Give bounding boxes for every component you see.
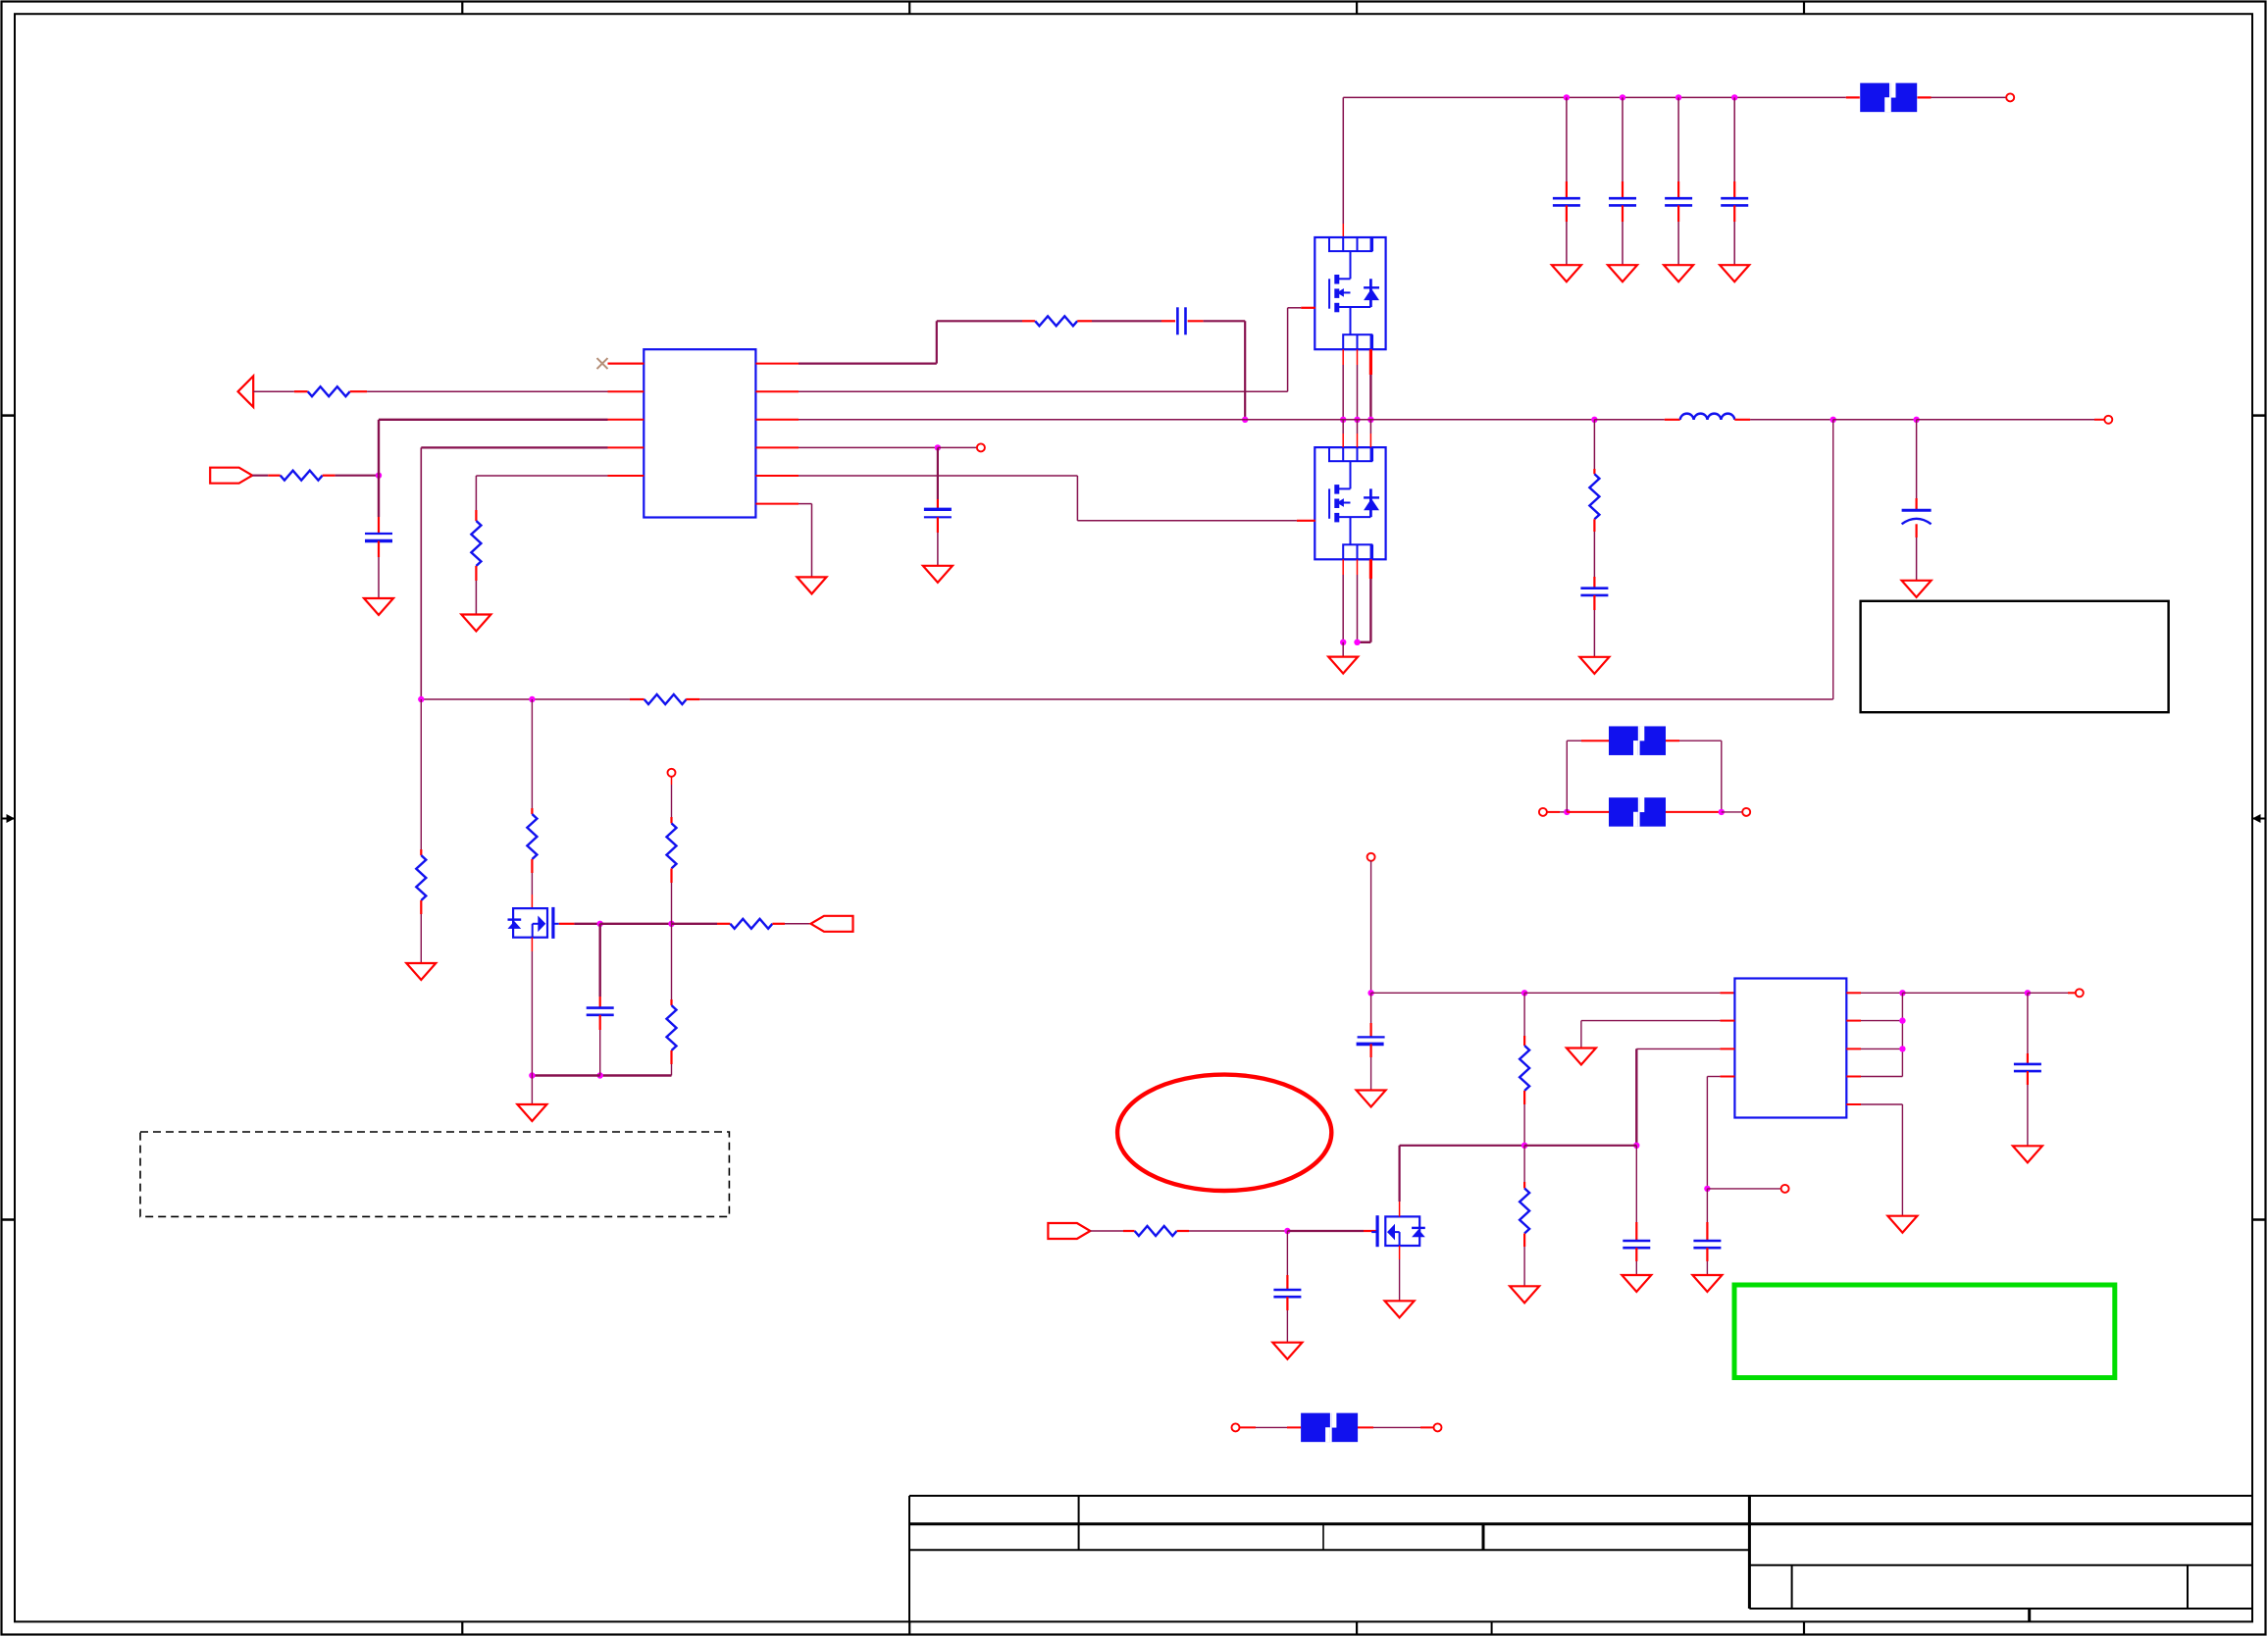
ground under C6	[923, 566, 953, 583]
wire bottom link left	[532, 1074, 599, 1076]
capacitor C15	[2014, 1053, 2041, 1085]
wire fuse right out	[1722, 811, 1743, 813]
capacitor C12	[1623, 1222, 1650, 1261]
border top tick 3	[1356, 2, 1358, 15]
junction R12 bottom	[1521, 1143, 1527, 1149]
wire C15 to ground	[2027, 1085, 2029, 1146]
wire VLDO to C15	[2027, 993, 2029, 1053]
capacitor C2	[1609, 181, 1636, 222]
wire SW to Q2 drain pin x1397.4	[1369, 420, 1371, 434]
wire VCC bus a	[1371, 992, 1525, 994]
U2 right pin1 stub	[1846, 992, 1861, 994]
wire C6 to ground	[937, 533, 939, 566]
wire Q2 source a red	[1342, 559, 1344, 575]
U2 left pin2 stub	[1720, 1020, 1734, 1022]
output tag port (net C)	[811, 916, 853, 932]
junction SW Q1 a	[1340, 417, 1346, 423]
title block right cell divider b	[2187, 1565, 2189, 1609]
op-amp U2 regulator body	[1734, 979, 1846, 1118]
ground under C9	[1902, 581, 1932, 597]
wire C12 top	[1635, 1146, 1637, 1222]
wire Q2 source b	[1357, 575, 1359, 642]
ground under C2	[1608, 265, 1637, 281]
U1 left pin 3 stub	[608, 419, 644, 421]
transistor Q2 (low-side MOSFET)	[1314, 447, 1385, 559]
ground under C13	[1692, 1275, 1722, 1292]
title block thick divider	[909, 1522, 2252, 1525]
note box black	[1861, 601, 2169, 712]
op-amp U1 controller body	[644, 349, 755, 517]
title block left edge	[908, 1496, 910, 1621]
fuse F3 lead right	[1666, 811, 1722, 813]
junction pinR4 node	[935, 444, 941, 450]
wire U1 pin4 to corner	[421, 446, 607, 448]
wire C7 to ground	[378, 557, 380, 598]
wire FB bus right	[699, 698, 1832, 700]
wire pinL4 corner down	[1706, 1077, 1708, 1189]
wire VOUT corner down	[1832, 420, 1834, 699]
wire U1 pinR5 to corner	[799, 475, 1077, 477]
wire tag to R2	[252, 475, 268, 477]
wire R13 top	[1523, 1146, 1525, 1182]
junction VOUT-FB	[1830, 417, 1836, 423]
wire pinR6 corner down	[811, 504, 813, 578]
input tag port (net D)	[1048, 1223, 1090, 1239]
U2 left pin1 stub	[1720, 992, 1734, 994]
wire Q3 source red	[531, 938, 533, 951]
U1 right pin 6 stub	[755, 503, 799, 505]
wire Q4 drain line b	[1524, 1145, 1636, 1147]
fuse F2 lead right	[1666, 740, 1722, 742]
title block right section edge	[1748, 1496, 1751, 1609]
ground under C14	[1272, 1343, 1302, 1359]
border right tick 2	[2252, 1218, 2266, 1221]
junction bottom link	[597, 1072, 603, 1078]
transistor Q4	[1371, 1215, 1425, 1247]
title block cell divider pre	[1078, 1496, 1080, 1550]
border bottom tick 2	[908, 1621, 910, 1635]
wire U1 pin5 corner down	[475, 476, 477, 510]
junction SW Q1 c	[1367, 417, 1373, 423]
terminal fuse pair right	[1742, 808, 1750, 816]
transistor Q3	[508, 907, 559, 939]
wire R2 to junction	[335, 475, 379, 477]
wire SW to Q2 drain pin x1397.4 red	[1369, 434, 1371, 447]
ground under C15	[2013, 1146, 2042, 1162]
wire Q4 drain up red	[1399, 1202, 1401, 1216]
wire C8 to ground	[1593, 610, 1595, 657]
title block bottom cell divider	[2028, 1609, 2031, 1621]
border left tick 2	[2, 1218, 16, 1221]
wire R11 to C8	[1593, 532, 1595, 577]
U1 left pin 1 stub	[608, 363, 644, 365]
ground under C4	[1720, 265, 1749, 281]
capacitor C4	[1721, 181, 1748, 222]
junction Q3 gate a	[597, 921, 603, 927]
wire Q4 drain up	[1398, 1146, 1400, 1202]
fuse F2 lead left	[1567, 740, 1609, 742]
U1 right pin 3 stub	[755, 419, 799, 421]
wire VCC bus b	[1524, 992, 1720, 994]
title block right cell divider a	[1791, 1565, 1793, 1609]
wire junction down to C7	[378, 476, 380, 517]
wire Q2 source b red	[1357, 559, 1359, 575]
junction U2R1	[1899, 990, 1905, 996]
wire FB left down	[420, 699, 422, 849]
title block right row line 1	[1749, 1564, 2252, 1566]
U1 left pin 5 stub	[608, 475, 644, 477]
wire C10 to bottom link	[599, 1030, 601, 1076]
wire SW to Q2 drain pin x1383.5	[1357, 420, 1359, 434]
wire SW to Q2 drain pin x1369.2 red	[1342, 434, 1344, 447]
resistor R3	[471, 510, 481, 581]
wire C2 to ground	[1622, 222, 1624, 265]
title block bottom tick	[1491, 1621, 1493, 1635]
resistor R6	[416, 849, 426, 914]
wire VIN to C1	[1566, 97, 1568, 181]
wire terminal down	[671, 785, 673, 817]
wire C5 to corner	[1204, 320, 1246, 322]
ground under U1 pinR6	[798, 577, 827, 593]
ground under R3	[461, 615, 490, 632]
resistor R9	[717, 919, 785, 929]
wire Q2 source c bend	[1358, 641, 1371, 643]
ground under U2 pinL2	[1567, 1049, 1596, 1065]
fuse F3	[1609, 797, 1666, 827]
wire VIN horizontal bus	[1343, 96, 1846, 98]
wire VCC terminal down	[1370, 861, 1372, 994]
wire VOUT bus b	[1833, 419, 1917, 421]
wire pinL2 corner down	[1580, 1021, 1582, 1049]
ground under C12	[1622, 1275, 1651, 1292]
wire Q1 source pin3 dark	[1369, 375, 1371, 420]
terminal F4 right	[1434, 1423, 1442, 1431]
ground under R13	[1510, 1286, 1539, 1303]
ground under C8	[1579, 657, 1609, 674]
wire Q1 source pin x1383.5 to SW bus	[1357, 365, 1359, 420]
capacitor C6	[924, 499, 952, 533]
wire VIN vertical to Q1	[1342, 97, 1344, 224]
terminal pinR4 node	[977, 443, 985, 451]
fuse F1 lead right	[1918, 96, 1932, 98]
fuse F2	[1609, 726, 1666, 755]
terminal VIN	[2006, 93, 2014, 101]
resistor R8	[667, 817, 677, 883]
wire junction to terminal T8	[1707, 1188, 1781, 1190]
wire Q2 source c dark	[1369, 579, 1371, 642]
junction fuse left	[1564, 809, 1570, 815]
title block cell divider b	[1482, 1524, 1485, 1550]
terminal divider top	[668, 769, 676, 777]
wire SW to Q2 drain pin x1369.2	[1342, 420, 1344, 434]
fuse F4 lead right	[1358, 1426, 1434, 1428]
ground under R6	[406, 963, 436, 980]
wire corner to U1 pin3	[379, 419, 608, 421]
resistor R2	[268, 471, 335, 481]
wire Q4 source down	[1399, 1259, 1401, 1301]
capacitor C9 (polarized)	[1902, 498, 1932, 537]
U2 right pin5 stub	[1846, 1103, 1861, 1105]
wire VIN to C2	[1622, 97, 1624, 181]
terminal pinL4 node	[1781, 1185, 1789, 1193]
U1 right pin 5 stub	[755, 475, 799, 477]
wire R12 top	[1523, 993, 1525, 1036]
wire to fuse junction	[1560, 811, 1567, 813]
wire U1 pin5 to corner	[476, 475, 607, 477]
junction SW divider	[1591, 417, 1597, 423]
capacitor C11	[1357, 993, 1385, 1090]
wire Q4 drain line	[1400, 1145, 1525, 1147]
U1 right pin 2 stub	[755, 390, 799, 392]
wire junction down to C6	[937, 447, 939, 499]
wire U1 pinR2 to corner	[799, 390, 1288, 392]
wire R10 to corner	[671, 1064, 673, 1076]
wire R14 to junction	[1189, 1230, 1287, 1232]
wire Q2 source c red	[1369, 559, 1372, 579]
wire C3 to ground	[1677, 222, 1679, 265]
note box green	[1734, 1285, 2115, 1378]
wire VLDO bus	[1902, 992, 2027, 994]
capacitor C7	[365, 517, 392, 557]
junction Q3 gate b	[668, 921, 674, 927]
wire R6 to ground	[420, 914, 422, 963]
fuse F1 lead left	[1846, 96, 1860, 98]
junction net B	[376, 473, 382, 479]
U2 left pin3 stub	[1720, 1048, 1734, 1049]
wire Q1 source pin x1369.2 to SW bus	[1342, 365, 1344, 420]
wire R9 to tag	[785, 923, 811, 925]
wire BST corner up	[936, 321, 938, 363]
junction Q4 drain line	[1633, 1143, 1639, 1149]
wire VOUT to C9	[1916, 420, 1918, 498]
wire C14 to ground	[1286, 1310, 1288, 1343]
wire VOUT bus a	[1750, 419, 1833, 421]
wire U2 pinL2 to corner	[1581, 1020, 1721, 1022]
junction U2R2	[1899, 1017, 1905, 1023]
wire VIN to C3	[1677, 97, 1679, 181]
wire gate bus to R9	[672, 923, 718, 925]
wire R1 to U1 pin2	[367, 390, 607, 392]
wire U1 pinR4 to junction	[799, 446, 938, 448]
terminal VLDO	[2076, 989, 2084, 997]
junction SW Q1 b	[1354, 417, 1360, 423]
border top tick 1	[461, 2, 463, 15]
border bottom tick 1	[461, 1621, 463, 1635]
border top tick 4	[1803, 2, 1805, 15]
wire fuse-left red	[1547, 811, 1560, 813]
ground under C1	[1552, 265, 1581, 281]
wire U2 right tie vert	[1901, 993, 1903, 1076]
wire Q1 source pin x1369.2 to SW	[1342, 349, 1344, 365]
resistor R12	[1520, 1036, 1529, 1104]
wire Q4 source down red	[1399, 1246, 1401, 1259]
wire Q1 source pin3 red	[1369, 349, 1372, 375]
wire C1 to ground	[1566, 222, 1568, 265]
wire R8 to junction	[671, 883, 673, 924]
wire F1 to VIN terminal	[1932, 96, 2007, 98]
U2 right pin3 stub	[1846, 1048, 1861, 1049]
fuse F4	[1301, 1412, 1358, 1442]
resistor R11	[1589, 469, 1599, 532]
wire Q4 gate red stub	[1364, 1230, 1377, 1232]
wire Q3 gate red stub	[559, 923, 575, 925]
wire R12 bottom	[1523, 1104, 1525, 1146]
wire pinL3 corner down	[1635, 1049, 1637, 1145]
wire Q1 gate red stub	[1301, 307, 1315, 309]
wire corner down to FB bus	[420, 447, 422, 699]
terminal VCC top	[1367, 853, 1375, 861]
wire Q3 gate to junction	[574, 923, 599, 925]
ground under Q2	[1328, 657, 1358, 674]
resistor R5	[630, 694, 699, 704]
terminal VOUT	[2104, 416, 2112, 424]
fuse F1	[1860, 82, 1917, 112]
wire terminal down red	[671, 777, 673, 786]
wire BST horizontal	[937, 320, 1022, 322]
wire junction to Q4 gate	[1287, 1230, 1364, 1232]
wire U1 pinR6 to corner	[799, 503, 812, 505]
capacitor C5 (series)	[1161, 307, 1204, 334]
border bottom tick 3	[1356, 1621, 1358, 1635]
input tag port (net B)	[210, 468, 252, 484]
wire R7 to Q3 red	[531, 895, 533, 908]
border right tick 1	[2252, 414, 2266, 417]
border left tick 1	[2, 414, 16, 417]
junction FB mid	[529, 696, 535, 702]
border bottom tick 4	[1803, 1621, 1805, 1635]
wire fuse loop right down	[1721, 741, 1723, 812]
resistor R7	[527, 808, 537, 873]
U2 right pin4 stub	[1846, 1076, 1861, 1078]
resistor R10	[667, 999, 677, 1064]
U2 left pin4 stub	[1720, 1076, 1734, 1078]
wire C12 to ground	[1635, 1261, 1637, 1275]
capacitor C1	[1553, 181, 1580, 222]
wire C4 to ground	[1733, 222, 1735, 265]
wire junction down to R10	[671, 924, 673, 999]
junction VIN cap 4	[1731, 94, 1737, 100]
wire VIN vertical red stub at Q1	[1342, 224, 1344, 237]
junction Q4 gate	[1284, 1228, 1290, 1234]
wire Q2 source a	[1342, 575, 1344, 642]
wire Q2 gate red stub	[1297, 520, 1315, 522]
wire U2 right tie a	[1861, 992, 1902, 994]
wire junction to terminal	[938, 446, 977, 448]
wire Q2 source to ground	[1342, 642, 1344, 657]
title block top line	[909, 1495, 2252, 1497]
wire SW bus c	[1594, 419, 1664, 421]
wire R4 to C5	[1092, 320, 1161, 322]
junction pinL4 node	[1704, 1186, 1710, 1192]
ground under U2 pinR5	[1887, 1216, 1917, 1233]
wire FB mid down	[531, 699, 533, 808]
wire SW bus a	[799, 419, 1245, 421]
junction VCC cap	[1367, 990, 1373, 996]
wire gate2 corner down	[1076, 476, 1078, 521]
wire U2 pinR3 link	[1861, 1048, 1902, 1049]
title block cell divider a	[1322, 1524, 1324, 1550]
border top tick 2	[908, 2, 910, 15]
wire BST corner down to SW	[1244, 321, 1246, 420]
ground under C11	[1357, 1091, 1386, 1107]
wire Q1 source pin x1383.5 to SW	[1357, 349, 1359, 365]
title block right row line 2	[1749, 1608, 2252, 1610]
wire U2 pinL3 to corner	[1636, 1048, 1720, 1049]
ground under C3	[1664, 265, 1693, 281]
wire R13 to ground	[1523, 1247, 1525, 1286]
wire junction down to C14	[1286, 1231, 1288, 1275]
wire U2 pinL4 to corner	[1707, 1076, 1720, 1078]
resistor R1	[294, 386, 367, 396]
capacitor C13	[1693, 1222, 1721, 1261]
U1 right pin 1 stub	[755, 363, 799, 365]
U1 left pin 4 stub	[608, 446, 644, 448]
title block row line left	[909, 1549, 1749, 1551]
wire SW to R11	[1593, 420, 1595, 469]
junction VLDO cap	[2025, 990, 2031, 996]
junction VIN cap 2	[1620, 94, 1625, 100]
wire U1 pinR1 to corner	[799, 363, 937, 365]
wire pinR5 corner down	[1901, 1104, 1903, 1216]
junction fuse right	[1719, 809, 1725, 815]
U1 left pin 2 stub	[608, 390, 644, 392]
terminal fuse pair left	[1539, 808, 1547, 816]
wire FB bus left	[421, 698, 630, 700]
input port triangle (net A)	[238, 376, 254, 407]
wire port to R1	[253, 390, 294, 392]
no-connect X on U1 pin 1	[597, 358, 644, 369]
wire U2 pinR2 link	[1861, 1020, 1902, 1022]
ground under Q4	[1385, 1301, 1415, 1317]
wire bottom link	[600, 1074, 672, 1076]
wire R3 to ground	[475, 581, 477, 615]
wire SW bus b	[1245, 419, 1594, 421]
junction Q2 source b	[1354, 639, 1360, 645]
terminal F4 left	[1232, 1423, 1240, 1431]
ground under C7	[364, 598, 393, 615]
junction bottom left	[529, 1072, 535, 1078]
resistor R4	[1022, 316, 1092, 326]
wire fuse loop left up	[1566, 741, 1568, 812]
capacitor C10	[587, 997, 614, 1030]
wire bottom to ground	[531, 1076, 533, 1105]
wire Q3 source down	[531, 951, 533, 1076]
wire VLDO bus b	[2028, 992, 2068, 994]
border right center arrow	[2252, 814, 2266, 823]
wire gate junction down	[599, 924, 601, 997]
wire VOUT bus c	[1917, 419, 2094, 421]
wire tag to R14	[1090, 1230, 1123, 1232]
wire corner to Q1 gate	[1288, 307, 1302, 309]
fuse F4 lead left	[1239, 1426, 1301, 1428]
wire U2 pinR5 link	[1861, 1103, 1902, 1105]
terminal VLDO red stub	[2068, 992, 2076, 994]
wire VIN to C4	[1733, 97, 1735, 181]
U2 right pin2 stub	[1846, 1020, 1861, 1022]
capacitor C14	[1273, 1275, 1301, 1310]
wire corner to Q2 gate	[1077, 520, 1297, 522]
wire C9 to ground	[1916, 537, 1918, 581]
resistor R13	[1520, 1182, 1529, 1247]
junction VIN cap 3	[1675, 94, 1681, 100]
fuse F3 lead left	[1567, 811, 1609, 813]
junction BST-SW	[1242, 417, 1248, 423]
ground under Q3 net	[517, 1104, 546, 1121]
wire gate corner up	[1287, 308, 1289, 391]
wire SW to Q2 drain pin x1383.5 red	[1357, 434, 1359, 447]
terminal VOUT red stub	[2094, 419, 2105, 421]
junction FB left	[418, 696, 424, 702]
